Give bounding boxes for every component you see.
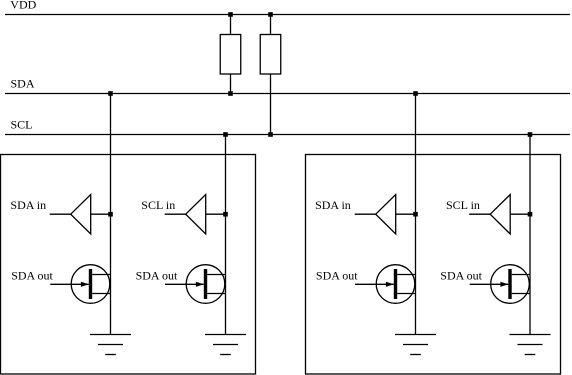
transistor SDA out N-MOS device 2 SCL cell: [470, 265, 530, 304]
wire Rp1 bottom lead: [230, 74, 232, 94]
transistor SDA out N-MOS device 1 SDA cell: [50, 265, 110, 304]
resistor Rp2 (SCL pull-up): [260, 35, 281, 75]
ground device 2 SDA cell: [395, 335, 436, 355]
svg-text:SDA: SDA: [11, 77, 35, 91]
wire Rp2 top lead: [270, 15, 272, 35]
svg-text:VDD: VDD: [10, 0, 36, 12]
junction SDA bus / device 1 drop: [108, 91, 113, 96]
svg-text:SDA in: SDA in: [315, 198, 351, 212]
junction SCL bus / device 1 drop: [223, 132, 228, 137]
wire VDD bus line: [5, 14, 570, 16]
ground device 2 SCL cell: [510, 335, 551, 355]
device box DEVICE 1: [1, 155, 256, 375]
junction buffer input / SCL drop device 1: [223, 212, 228, 217]
transistor SDA out N-MOS device 2 SDA cell: [355, 265, 416, 304]
svg-text:SDA out: SDA out: [11, 269, 53, 283]
buffer SDA in device 1: [50, 195, 111, 235]
svg-text:SDA in: SDA in: [10, 198, 46, 212]
device box DEVICE 2: [306, 155, 561, 375]
junction Rp2-VDD: [268, 12, 273, 17]
buffer SCL in device 1: [165, 195, 226, 235]
transistor SDA out N-MOS device 1 SCL cell: [165, 265, 226, 304]
ground device 1 SDA cell: [90, 335, 131, 355]
svg-text:SDA out: SDA out: [316, 269, 358, 283]
junction Rp2-SCL: [268, 132, 273, 137]
junction Rp1-SDA: [228, 91, 233, 96]
svg-text:SDA out: SDA out: [136, 269, 178, 283]
junction Rp1-VDD: [228, 12, 233, 17]
ground device 1 SCL cell: [205, 335, 246, 355]
wire SCL drop into device 1: [225, 135, 227, 335]
wire SCL bus line: [5, 134, 570, 136]
junction SDA bus / device 2 drop: [413, 91, 418, 96]
resistor Rp1 (SDA pull-up): [220, 35, 241, 75]
buffer SCL in device 2: [469, 195, 530, 235]
junction SCL bus / device 2 drop: [528, 132, 533, 137]
wire SDA bus line: [5, 93, 570, 95]
wire SCL drop into device 2: [529, 135, 531, 335]
wire SDA drop into device 2: [415, 94, 417, 335]
buffer SDA in device 2: [355, 195, 416, 235]
wire Rp2 bottom lead: [270, 74, 272, 135]
svg-text:SCL in: SCL in: [141, 198, 175, 212]
junction buffer input / SDA drop device 2: [413, 212, 418, 217]
wire Rp1 top lead: [230, 15, 232, 35]
svg-text:SCL: SCL: [11, 117, 33, 131]
svg-text:SDA out: SDA out: [440, 269, 482, 283]
junction buffer input / SCL drop device 2: [528, 212, 533, 217]
wire SDA drop into device 1: [110, 94, 112, 335]
svg-text:SCL in: SCL in: [446, 198, 480, 212]
junction buffer input / SDA drop device 1: [108, 212, 113, 217]
